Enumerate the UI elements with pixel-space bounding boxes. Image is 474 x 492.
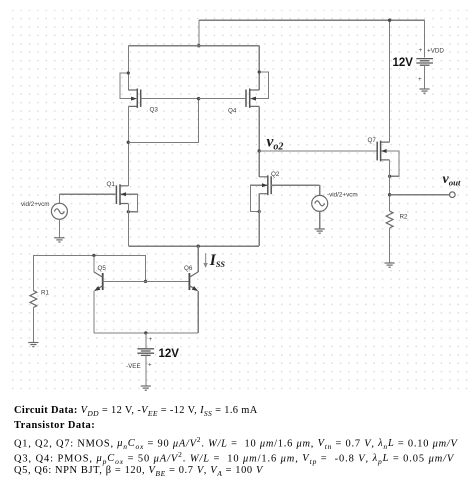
svg-text:-vid/2+vcm: -vid/2+vcm [327,192,358,199]
svg-text:-VEE: -VEE [126,363,141,370]
ground VDD battery [419,89,429,93]
svg-text:+: + [418,76,422,83]
node emitter rail [144,331,147,334]
wire vo2 to Q7 gate [259,150,377,152]
AC source V1 vid/2+vcm [21,194,67,237]
node tail [197,245,200,248]
svg-text:+: + [149,336,153,343]
wire vertical link top [198,20,200,46]
node R1/Q5 collector [92,254,95,257]
svg-text:vid/2+vcm: vid/2+vcm [21,201,50,208]
transistor Q2 [250,171,319,246]
node gate tie top [197,97,200,100]
terminal vout [450,192,456,198]
ground right AC [315,229,325,233]
node Q3 drain / gate tie [127,141,130,144]
resistor R1 [30,290,50,308]
wire gate-drain tie [128,99,198,143]
transistor Q4 [199,46,269,115]
node junction top link [197,44,200,47]
AC source V2 -vid/2+vcm [312,185,358,229]
ISS arrow [203,252,225,269]
svg-text:Q2: Q2 [271,171,280,178]
node base rail tie [144,280,147,283]
battery VEE 12V [126,333,179,386]
svg-text:ISS: ISS [209,252,226,269]
svg-text:R1: R1 [41,290,50,297]
wire R1 to ground [32,308,34,343]
svg-text:Q3: Q3 [150,107,159,114]
ground R1 [28,343,38,347]
wire R1 top net [33,255,145,290]
svg-text:Q4: Q4 [228,108,237,115]
svg-text:12V: 12V [393,57,414,69]
transistor Q6 [184,246,198,333]
wire base rail [103,280,190,282]
wire to vout terminal [390,194,450,196]
wire R2 to ground [389,228,391,263]
text block [14,405,474,480]
svg-text:Q7: Q7 [368,137,377,144]
battery VDD 12V [388,19,445,89]
node vo2 [258,149,261,152]
svg-text:vo2: vo2 [267,134,284,153]
transistor Q1 [59,181,137,246]
svg-text:Q6: Q6 [184,265,193,272]
ground VEE battery [141,386,151,390]
svg-text:+: + [419,47,423,54]
svg-text:Q1: Q1 [107,181,116,188]
svg-text:R2: R2 [400,214,409,221]
svg-text:12V: 12V [159,348,180,360]
wire PMOS source rail [128,45,259,47]
wire top VDD rail [199,19,425,21]
svg-text:+VDD: +VDD [427,48,444,55]
wire Q4 drain column to vo2 [258,106,260,176]
transistor Q5 [94,255,106,333]
ground R2 [385,263,395,267]
node vout junction [388,193,391,196]
svg-text:Q5: Q5 [98,265,107,272]
transistor Q7 [368,20,400,211]
wire Q3 drain column [127,106,129,185]
wire tail rail [128,245,259,247]
svg-text:+: + [148,362,152,369]
wire emitter rail [94,332,198,334]
svg-text:vout: vout [443,172,462,188]
transistor Q3 [120,46,199,114]
ground left AC [54,238,64,242]
resistor R2 [386,211,408,228]
